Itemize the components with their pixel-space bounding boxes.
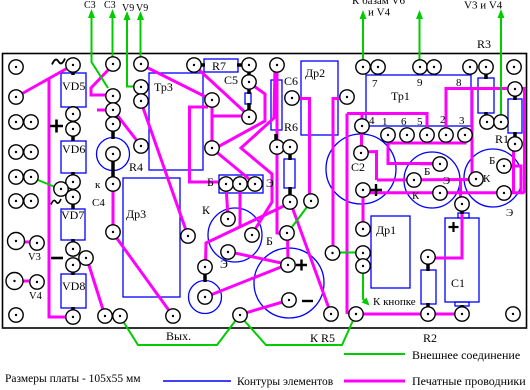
pad 194,65 xyxy=(187,58,201,72)
pad pin4 362,126 xyxy=(355,119,369,133)
pad 290,147 xyxy=(283,140,297,154)
svg-text:Б: Б xyxy=(207,175,214,189)
svg-text:5: 5 xyxy=(417,116,423,128)
pad 249,117 xyxy=(242,110,256,124)
svg-text:Внешнее соединение: Внешнее соединение xyxy=(412,348,520,362)
pad pin3 465,135 xyxy=(458,128,472,142)
svg-text:3: 3 xyxy=(459,115,465,127)
external lead V3 V4 arrow xyxy=(500,16,502,116)
pad 277,147 xyxy=(270,140,284,154)
wire pad277-147 down to pad287-233 xyxy=(277,149,284,234)
choke Dr1 outline xyxy=(371,216,410,288)
pad V2 K 476,179 xyxy=(469,172,483,186)
pad V1 B 440,164 xyxy=(433,157,447,171)
lead link C1 top xyxy=(460,208,464,214)
transistor V2 circle xyxy=(464,149,522,207)
svg-text:VD5: VD5 xyxy=(62,79,85,93)
wire pad226-184 to pad228-219 xyxy=(226,186,228,217)
pad pin2 446,135 xyxy=(439,128,453,142)
svg-text:С6: С6 xyxy=(284,74,298,88)
pad 16,201 xyxy=(9,194,23,208)
pad 16,67 xyxy=(9,60,23,74)
svg-text:8: 8 xyxy=(456,77,462,89)
label minus VD column xyxy=(51,257,63,260)
pad R1 bottom 515,144 xyxy=(508,137,522,151)
pad 141,101 xyxy=(134,94,148,108)
wire loop pad113-64 to pad113-96 xyxy=(91,68,110,95)
lead link VD5 top xyxy=(71,69,75,75)
pad 141,146 xyxy=(134,139,148,153)
transformer Tr3 outline xyxy=(149,73,203,170)
lead link C5 body top xyxy=(247,87,251,94)
svg-text:Тр3: Тр3 xyxy=(154,80,173,94)
svg-text:С2: С2 xyxy=(351,160,365,174)
pad 212,100 xyxy=(205,93,219,107)
resistor R7 body xyxy=(204,59,238,72)
wire pin6 stub xyxy=(388,137,407,143)
transistor K circle xyxy=(208,208,262,262)
wire pad249-82 zigzag to pad212-148 xyxy=(214,84,265,149)
pad 277,65 xyxy=(270,58,284,72)
lead link R2 bottom xyxy=(426,303,430,310)
svg-text:Тр1: Тр1 xyxy=(391,89,410,103)
external lead V9 arrow 2 xyxy=(140,18,142,62)
label plus C2 xyxy=(370,184,382,196)
lead link C6 bottom xyxy=(274,134,278,142)
svg-text:Др1: Др1 xyxy=(376,223,396,237)
svg-text:С5: С5 xyxy=(224,73,238,87)
pad 113,96 xyxy=(106,89,120,103)
pad C1 top 462,204 xyxy=(455,197,469,211)
svg-text:VD8: VD8 xyxy=(62,279,85,293)
pad 73,182 xyxy=(66,175,80,189)
svg-text:2: 2 xyxy=(440,114,446,126)
svg-text:К R5: К R5 xyxy=(310,331,335,345)
pad K transistor 228,252 xyxy=(221,245,235,259)
transformer Tr1 outline xyxy=(366,75,471,126)
label minus C7 xyxy=(302,300,313,302)
pad 514,67 xyxy=(507,60,521,74)
pad 287,233 xyxy=(280,226,294,240)
pad 487,122 xyxy=(480,115,494,129)
capacitor C2 circle xyxy=(326,134,396,204)
svg-text:Э: Э xyxy=(220,257,228,271)
resistor R5 circle xyxy=(189,281,222,314)
svg-text:R2: R2 xyxy=(423,331,437,345)
wire pad228-251 to pad288-265 xyxy=(230,252,286,264)
svg-text:V4: V4 xyxy=(29,291,43,302)
pad 61,189 xyxy=(54,182,68,196)
svg-text:К: К xyxy=(412,190,420,202)
resistor R3 body xyxy=(478,78,494,113)
svg-text:Э: Э xyxy=(443,175,450,187)
lead link R1 bottom xyxy=(513,132,517,140)
wire zigzag pad277-65 to pad253-232 xyxy=(241,67,275,231)
pad pin9a 420,67 xyxy=(413,60,427,74)
pad 363,253 xyxy=(356,246,370,260)
svg-text:VD6: VD6 xyxy=(62,142,85,156)
svg-text:V9: V9 xyxy=(136,3,148,14)
wire pad113-232 to pad173-316 xyxy=(113,233,173,316)
wire vertical x49 to pad73-317 xyxy=(49,78,73,317)
wire pad141-64 to pad212-100 xyxy=(142,65,212,100)
pad 16,122 xyxy=(9,115,23,129)
lead link VD7 top xyxy=(71,202,75,209)
board outline xyxy=(3,54,527,329)
wire pad212-100 jog down to pad B1 block xyxy=(190,107,223,182)
pad 249,65 xyxy=(242,58,256,72)
wire pin1 pin6 pin3 net xyxy=(388,137,437,164)
pad 73,114 xyxy=(66,107,80,121)
external lead K R5 net xyxy=(241,316,355,345)
pad 113,110 xyxy=(106,103,120,117)
svg-text:С3: С3 xyxy=(84,0,96,11)
lead link pads 113-110 113-124 xyxy=(111,114,115,120)
wire E net horizontal y193 xyxy=(364,192,525,193)
pad 173,316 xyxy=(166,309,180,323)
wire branch to pad249-116 xyxy=(212,115,246,118)
choke Dr2 outline xyxy=(301,61,338,135)
svg-text:V3: V3 xyxy=(28,252,41,263)
svg-text:Э: Э xyxy=(506,207,513,219)
pad 37,282 xyxy=(30,275,44,289)
wire bottom bus pad356 to pad462 xyxy=(358,313,462,316)
lead link VD7 bottom xyxy=(71,239,75,244)
pad 141,87 xyxy=(134,80,148,94)
label tilde top xyxy=(52,59,65,65)
svg-text:V3 и V4: V3 и V4 xyxy=(464,0,503,12)
resistor R1 body xyxy=(508,99,522,133)
external connection legend line xyxy=(344,353,405,355)
external lead to bases V6 V4 arrow 1 xyxy=(362,18,364,64)
pad pin1 388,135 xyxy=(381,128,395,142)
external lead C3 arrow 2 xyxy=(112,16,114,62)
wire C2 bottom pad to pad363-229 xyxy=(362,192,365,227)
legend blue line xyxy=(163,380,231,382)
wire C4 pad113-184 to pad113-232 xyxy=(112,186,115,232)
lead link VD8 bottom xyxy=(71,307,75,312)
wire R1 riser from E net xyxy=(512,146,515,193)
wire V4 pad pair link xyxy=(16,280,34,283)
pad 428,314 xyxy=(421,307,435,321)
pad 141,64 xyxy=(134,57,148,71)
pad 31,177 xyxy=(24,170,38,184)
svg-text:R3: R3 xyxy=(477,37,491,51)
pad 188,236 xyxy=(181,229,195,243)
svg-text:4: 4 xyxy=(369,115,375,127)
diode VD6 outline xyxy=(61,141,86,173)
pad 73,197 xyxy=(66,190,80,204)
lead link VD8 top xyxy=(71,270,75,275)
wire pad287-233 to pad288-265 xyxy=(286,235,290,263)
pad K transistor 252,235 xyxy=(245,228,259,242)
pad 73,317 xyxy=(66,310,80,324)
capacitor C1 outline xyxy=(445,218,479,302)
pad 37,243 xyxy=(30,236,44,250)
lead link pads 105-316 120-316 xyxy=(110,314,115,318)
pad 113,124 xyxy=(106,117,120,131)
capacitor C6 body xyxy=(271,80,282,130)
svg-text:Вых.: Вых. xyxy=(166,329,191,343)
wire stub to pad113-110 xyxy=(97,109,110,112)
external lead Vyh net xyxy=(121,316,239,345)
svg-text:Б: Б xyxy=(424,166,430,178)
pad V1 K 414,180 xyxy=(407,173,421,187)
pad 31,122 xyxy=(24,115,38,129)
svg-text:V9: V9 xyxy=(122,3,134,14)
svg-text:Др3: Др3 xyxy=(126,207,146,221)
svg-text:Печатные проводники: Печатные проводники xyxy=(412,374,526,388)
pad 292,98 xyxy=(285,91,299,105)
lead link R4 bottom xyxy=(111,160,115,178)
pad 73,65 xyxy=(66,58,80,72)
resistor R4 circle xyxy=(97,138,130,171)
label plus VD column xyxy=(50,120,63,133)
diode VD8 outline xyxy=(61,274,86,308)
external lead V9 arrow 1 xyxy=(127,18,134,87)
svg-text:Б: Б xyxy=(489,155,495,167)
choke Dr3 outline xyxy=(123,178,180,297)
wire pin2 up and over to pad515-88 xyxy=(446,89,515,133)
resistor R6 body xyxy=(284,159,295,188)
pad center dots xyxy=(13,63,516,318)
transistor V1 circle xyxy=(404,152,460,208)
pad 31,201 xyxy=(24,194,38,208)
lead link R7 left xyxy=(199,63,205,67)
diode VD5 outline xyxy=(61,73,86,107)
svg-text:Др2: Др2 xyxy=(305,66,325,80)
wire K net horizontal y180 xyxy=(377,178,474,182)
svg-text:К кнопке: К кнопке xyxy=(373,296,416,308)
pad V1 E 440,193 xyxy=(433,186,447,200)
wire pin5 net down x347 to pad356-314 xyxy=(347,114,353,315)
svg-text:R6: R6 xyxy=(284,120,298,134)
pad 113,184 xyxy=(106,177,120,191)
pad C7 plus 288,265 xyxy=(281,258,295,272)
capacitor C1 top tab xyxy=(458,213,469,218)
capacitor C5 body xyxy=(245,93,251,104)
pad 205,267 xyxy=(198,260,212,274)
external link pad31-177 to pad61-189 xyxy=(33,178,60,189)
wire pad290-202 to pad205-267 xyxy=(206,204,289,265)
svg-text:Размеры платы - 105х55 мм: Размеры платы - 105х55 мм xyxy=(5,373,141,385)
lead link VD6 bottom xyxy=(71,172,75,177)
wire B1 pad horizontal xyxy=(420,162,442,165)
wire pad113-110 to pad141-146 xyxy=(114,111,141,146)
svg-text:Э: Э xyxy=(266,176,274,190)
wire pad347-97 to pad333-253 xyxy=(333,99,345,254)
svg-text:Б: Б xyxy=(266,234,273,248)
svg-text:С3: С3 xyxy=(104,0,116,11)
lead link R4 top xyxy=(111,129,115,139)
lead link R7 right xyxy=(237,63,244,67)
lead link pads 277-147 290-147 xyxy=(282,145,286,149)
pad 16,152 xyxy=(9,145,23,159)
pad pin8a 470,67 xyxy=(463,60,477,74)
pad 363,229 xyxy=(356,222,370,236)
pad 332,253 xyxy=(325,246,339,260)
pad pin7b 378,67 xyxy=(371,60,385,74)
capacitor C7 circle xyxy=(254,248,324,318)
lead link R6 top xyxy=(288,152,292,160)
resistor R2 body xyxy=(421,270,436,304)
pad 73,249 xyxy=(66,242,80,256)
pad 73,129 xyxy=(66,122,80,136)
pad 501,122 xyxy=(494,115,508,129)
pad K transistor 228,219 xyxy=(221,212,235,226)
lead link R5 xyxy=(203,272,207,282)
pad pin8b 486,67 xyxy=(479,60,493,74)
svg-text:К: К xyxy=(202,203,211,217)
wire pad205-297 to pad288-265 xyxy=(208,265,286,296)
pad Vyh 240,315 xyxy=(233,308,247,322)
wire pad212-148 to pad255-184 xyxy=(214,150,254,183)
pad V2 E 504,193 xyxy=(497,186,511,200)
pad 120,316 xyxy=(113,309,127,323)
svg-text:VD7: VD7 xyxy=(61,208,84,222)
pad B block 240,184 xyxy=(233,177,247,191)
lead link R3 bottom xyxy=(484,112,488,118)
diode VD7 outline xyxy=(61,209,85,240)
wire right edge vertical x524 xyxy=(514,89,525,194)
pad pin9b 434,67 xyxy=(427,60,441,74)
pad 515,89 xyxy=(508,82,522,96)
pad C2 bottom 363,190 xyxy=(356,183,370,197)
pad 113,64 xyxy=(106,57,120,71)
svg-text:7: 7 xyxy=(372,78,378,90)
pad V3 16,241 xyxy=(8,233,25,250)
lead link VD6 top xyxy=(71,134,75,141)
pad 73,265 xyxy=(66,258,80,272)
pad 311,201 xyxy=(304,194,318,208)
pad C7 minus 289,300 xyxy=(282,293,296,307)
capacitor C1 bottom tab xyxy=(455,302,469,306)
external lead to bases V6 V4 arrow 2 xyxy=(419,18,421,64)
label tilde middle xyxy=(51,199,61,205)
wire C1 top to R2 top pad xyxy=(430,206,462,258)
pad 113,232 xyxy=(106,225,120,239)
svg-text:R4: R4 xyxy=(129,160,143,174)
wire pad240-184 down to junction xyxy=(239,186,242,227)
svg-text:К: К xyxy=(483,173,491,185)
pad 290,202 xyxy=(283,195,297,209)
lead link C5 body bottom xyxy=(247,103,251,111)
lead link R6 bottom xyxy=(288,187,292,197)
external lead K knopke arrow xyxy=(363,272,368,304)
external lead C3 arrow 1 xyxy=(92,16,109,88)
external link pad333-253 to pad363-253 xyxy=(339,252,357,254)
wire pad289-300 to pad240-315 xyxy=(242,301,286,314)
wire C2 top pad to K net xyxy=(363,152,377,181)
wire C6 vertical pad277-65 to pad277-147 xyxy=(276,67,279,147)
svg-text:С4: С4 xyxy=(92,197,105,209)
pad 105,316 xyxy=(98,309,112,323)
lead link pads 363-253 363-266 xyxy=(361,258,365,261)
pad 462,314 xyxy=(455,307,469,321)
pad 513,314 xyxy=(506,307,520,321)
printed conductor legend line xyxy=(344,380,405,383)
wire pin5 net horizontal y113 xyxy=(347,114,427,133)
pad 347,97 xyxy=(340,90,354,104)
wire pin3 stub xyxy=(407,137,465,143)
wire pad194-65 to pad249-117 xyxy=(196,67,248,115)
external link pad311-201 to pad287-233 xyxy=(289,203,310,231)
pad V4 14,281 xyxy=(6,273,23,290)
svg-text:6: 6 xyxy=(401,116,407,128)
pad 16,177 xyxy=(9,170,23,184)
pad pin7a 363,67 xyxy=(356,60,370,74)
pad V2 B 504,166 xyxy=(497,159,511,173)
lead link R2 top xyxy=(426,262,430,271)
svg-text:1: 1 xyxy=(382,116,388,128)
svg-text:С1: С1 xyxy=(451,276,465,290)
wire pad73-65 to pad16-97 xyxy=(16,65,73,97)
pad 16,97 xyxy=(9,90,23,104)
pad 249,82 xyxy=(242,75,256,89)
wire pad292-98 to pad311-201 xyxy=(294,99,311,202)
label plus C7 xyxy=(296,260,307,271)
pad 86,258 xyxy=(79,251,93,265)
lead link R1 top xyxy=(513,93,517,100)
lead link VD5 bottom xyxy=(71,106,75,111)
lead link C5 top chain xyxy=(247,70,251,77)
pad R2 top 428,257 xyxy=(421,250,435,264)
svg-text:Контуры элементов: Контуры элементов xyxy=(237,376,334,388)
wire V3 pad pair link xyxy=(18,241,34,244)
wire pad141-101 to pad188-236 xyxy=(141,102,188,236)
svg-text:9: 9 xyxy=(417,77,423,89)
wire B2 pad right and down xyxy=(506,166,521,192)
pad R5 205,297 xyxy=(198,290,212,304)
pad B block 255,184 xyxy=(248,177,262,191)
pad 356,314 xyxy=(349,307,363,321)
svg-text:и V4: и V4 xyxy=(368,7,391,19)
pad 363,266 xyxy=(356,259,370,273)
label plus C1 xyxy=(449,222,459,232)
svg-text:R7: R7 xyxy=(212,59,226,73)
pad C2 top 361,153 xyxy=(354,146,368,160)
pad pin5 427,135 xyxy=(420,128,434,142)
pad pin6 407,135 xyxy=(400,128,414,142)
terminal block B outline xyxy=(219,175,263,193)
lead link pads 113-96 113-110 xyxy=(111,100,115,106)
wire pin4 pad to C2 top pad xyxy=(360,130,363,151)
wire pad290-202 to pad331-314 xyxy=(291,204,331,314)
wire pin2 net riser to K2 pad xyxy=(471,89,474,178)
wire pin4 stub xyxy=(361,114,364,124)
pad R4 113,154 xyxy=(106,147,120,161)
wire pad212-100 to pad212-148 xyxy=(211,102,214,148)
pad 16,315 xyxy=(9,308,23,322)
pad 331,314 xyxy=(324,307,338,321)
svg-text:к: к xyxy=(95,179,101,191)
lead link R3 top xyxy=(484,71,488,79)
wire pad86-258 to pad105-316 xyxy=(87,259,105,316)
wire K2 branch to C1 top pad xyxy=(461,180,463,203)
lead link C1 bottom xyxy=(460,305,464,311)
svg-text:R1: R1 xyxy=(495,132,509,146)
pad 212,148 xyxy=(205,141,219,155)
pad 31,152 xyxy=(24,145,38,159)
lead link pads 73-114 73-129 xyxy=(71,119,75,124)
pad B block 226,184 xyxy=(219,177,233,191)
